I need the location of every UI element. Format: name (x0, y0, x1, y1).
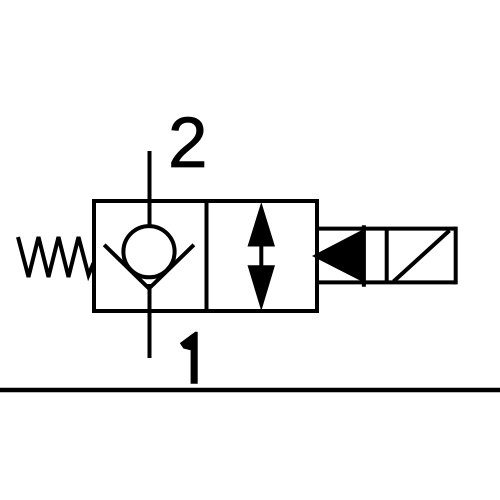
solenoid box top edge (315, 227, 456, 231)
solenoid box right edge (454, 227, 458, 285)
baseline rule (0, 388, 500, 393)
check valve seat (V) (104, 245, 194, 289)
flow arrow down (right position) (248, 265, 276, 311)
wire: bottom port line (port 1) (148, 284, 152, 358)
flow arrow up (right position) (248, 202, 276, 247)
valve position divider (205, 201, 209, 311)
solenoid triangle base line (362, 225, 366, 287)
valve body: 2-position envelope (94, 201, 317, 311)
flow arrow link line (259, 246, 263, 266)
check valve ball (circle) (123, 226, 174, 277)
solenoid box bottom edge (315, 280, 456, 284)
wire: top port line (port 2) (148, 151, 152, 240)
solenoid internal divider (385, 227, 389, 284)
return spring (18, 237, 94, 277)
svg-text:2: 2 (168, 104, 208, 183)
solenoid actuator triangle (points left) (312, 229, 364, 283)
port label 1 (180, 332, 198, 384)
solenoid coil diagonal (394, 231, 450, 282)
